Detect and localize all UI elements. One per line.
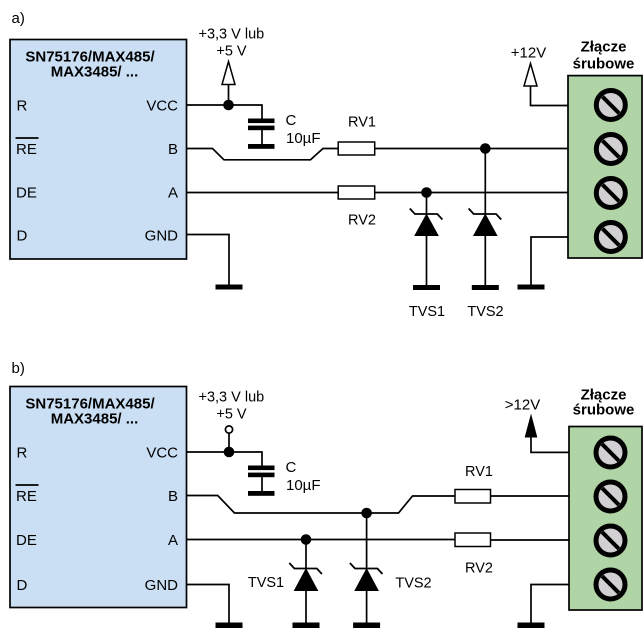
resistor RV1 (338, 142, 375, 155)
svg-text:b): b) (12, 360, 25, 377)
svg-text:RV1: RV1 (348, 115, 376, 131)
node VCC junction dot (224, 447, 235, 458)
svg-text:Złącze: Złącze (581, 39, 627, 56)
terminal block b screw 4 (596, 570, 625, 599)
svg-text:D: D (17, 228, 28, 245)
svg-text:RV2: RV2 (348, 213, 376, 229)
ground (TVS2 b) (353, 623, 380, 629)
svg-text:śrubowe: śrubowe (573, 56, 635, 73)
svg-text:R: R (17, 445, 28, 462)
terminal block a screw 2 (596, 135, 625, 164)
wire terminal 4 to ground (531, 237, 568, 285)
svg-text:DE: DE (16, 532, 37, 549)
RE overline (16, 484, 39, 486)
svg-text:RE: RE (16, 488, 37, 505)
ground (TVS1 b) (293, 623, 320, 629)
terminal block b body (569, 427, 642, 611)
capacitor C plate 2 (248, 126, 275, 131)
TVS diode TVS2 cathode bar (350, 563, 383, 574)
svg-text:VCC: VCC (146, 445, 178, 462)
svg-text:R: R (17, 98, 28, 115)
ground (capacitor C) (248, 491, 275, 496)
TVS diode TVS2 triangle (355, 569, 378, 591)
TVS diode TVS2 triangle (474, 215, 497, 236)
wire VCC to capacitor (261, 104, 263, 119)
TVS diode TVS1 triangle (295, 569, 318, 591)
capacitor C plate 1 (248, 466, 275, 471)
TVS diode TVS1 cathode bar (410, 209, 443, 220)
wire capacitor to ground (261, 130, 263, 145)
wire VCC pin (187, 104, 263, 106)
svg-text:+3,3 V lub: +3,3 V lub (199, 390, 265, 406)
wire supply circle to VCC node (228, 433, 230, 452)
svg-text:TVS2: TVS2 (467, 304, 503, 320)
wire B with long dip (187, 496, 456, 514)
svg-text:TVS1: TVS1 (248, 575, 284, 591)
wire TVS2 to ground (484, 236, 486, 286)
svg-text:VCC: VCC (146, 98, 178, 115)
wire TVS2 anode drop (484, 149, 486, 215)
svg-text:+5 V: +5 V (216, 44, 247, 60)
svg-text:a): a) (12, 10, 25, 27)
supply arrow (open) (222, 62, 235, 85)
wire TVS1 anode drop (426, 193, 428, 215)
svg-text:A: A (168, 532, 178, 549)
svg-text:TVS1: TVS1 (409, 304, 445, 320)
svg-text:+12V: +12V (511, 45, 546, 62)
wire TVS1 anode drop (305, 540, 307, 569)
svg-text:B: B (168, 488, 178, 505)
terminal block b screw 1 (596, 438, 625, 467)
node TVS2 junction dot on B line (480, 143, 491, 154)
svg-text:+3,3 V lub: +3,3 V lub (199, 27, 265, 43)
terminal block a screw 1 (596, 91, 625, 120)
wire B with hop under capacitor ground (187, 149, 339, 160)
wire >12V to terminal 1 (531, 436, 569, 452)
wire TVS1 to ground (305, 591, 307, 623)
svg-text:B: B (168, 141, 178, 158)
TVS diode TVS1 cathode bar (289, 563, 322, 574)
svg-text:RV1: RV1 (465, 464, 493, 480)
svg-text:MAX3485/ ...: MAX3485/ ... (51, 411, 139, 428)
svg-text:10µF: 10µF (286, 477, 321, 494)
wire terminal 4 to ground (531, 585, 569, 623)
TVS diode TVS1 triangle (415, 215, 438, 236)
svg-text:C: C (286, 112, 297, 129)
svg-text:10µF: 10µF (286, 130, 321, 147)
wire RV1 to terminal 2 (375, 148, 568, 150)
svg-text:D: D (17, 577, 28, 594)
svg-text:>12V: >12V (505, 397, 540, 414)
wire +12V to terminal 1 (531, 86, 569, 106)
wire supply arrow to VCC node (228, 85, 230, 106)
resistor RV2 (338, 186, 375, 199)
node TVS1 junction dot on A line (301, 534, 312, 545)
svg-text:A: A (168, 185, 178, 202)
svg-text:RE: RE (16, 141, 37, 158)
capacitor C plate 2 (248, 473, 275, 478)
ground (IC GND b) (216, 623, 243, 629)
+12V arrow (open) (524, 64, 537, 87)
resistor RV2 (455, 533, 491, 547)
wire VCC pin (187, 451, 263, 453)
terminal block b screw 3 (596, 526, 625, 555)
node VCC junction dot (223, 100, 234, 111)
node TVS2 junction dot on B line (361, 508, 372, 519)
ground (capacitor C) (248, 144, 275, 149)
TVS diode TVS2 cathode bar (469, 209, 502, 220)
>12V arrow (filled) (525, 416, 536, 438)
wire RV2 to terminal 3 (375, 192, 568, 194)
supply terminal circle (225, 426, 232, 433)
ground (TVS2) (472, 285, 499, 290)
terminal block a screw 3 (596, 179, 625, 208)
svg-text:C: C (286, 459, 297, 476)
terminal block a screw 4 (596, 223, 625, 252)
svg-text:GND: GND (145, 577, 179, 594)
wire GND pin to ground (187, 235, 230, 285)
wire A pin through RV2 to terminal 3 (187, 539, 456, 541)
svg-text:DE: DE (16, 185, 37, 202)
wire GND pin to ground (187, 585, 230, 623)
resistor RV1 (455, 490, 491, 504)
wire RV2 to terminal 3 (491, 539, 570, 541)
svg-text:TVS2: TVS2 (395, 576, 431, 592)
svg-text:MAX3485/ ...: MAX3485/ ... (51, 64, 139, 81)
IC U2 (SN75176/MAX485/MAX3485) body (10, 387, 187, 608)
terminal block a body (568, 76, 642, 258)
wire RV1 to terminal 2 (491, 495, 570, 497)
wire capacitor to ground (261, 477, 263, 492)
wire TVS2 anode drop (crosses A line) (366, 513, 368, 569)
wire TVS2 to ground (366, 591, 368, 623)
svg-text:GND: GND (145, 228, 179, 245)
ground (TVS1) (413, 285, 440, 290)
terminal block b screw 2 (596, 482, 625, 511)
svg-text:+5 V: +5 V (216, 407, 247, 423)
capacitor C plate 1 (248, 119, 275, 124)
svg-text:RV2: RV2 (465, 561, 493, 577)
IC U1 (SN75176/MAX485/MAX3485) body (10, 40, 187, 260)
ground (terminal block a) (518, 285, 545, 290)
wire VCC to capacitor (261, 451, 263, 466)
wire A pin to RV2 (187, 192, 339, 194)
ground (IC GND) (216, 285, 243, 290)
ground (terminal block b) (518, 623, 545, 629)
wire TVS1 to ground (426, 236, 428, 286)
node TVS1 junction dot on A line (421, 187, 432, 198)
svg-text:śrubowe: śrubowe (573, 402, 635, 419)
RE overline (16, 137, 39, 139)
